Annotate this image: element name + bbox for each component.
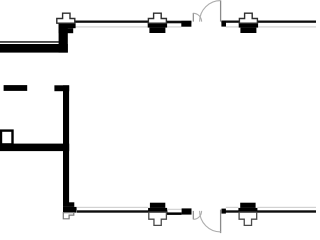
wall: left vertical wall (63, 85, 69, 202)
column U-top-middle: white castellated cap (148, 13, 166, 23)
wire: bottom wall faint inner line (77, 207, 316, 208)
column U-top-middle: black base (148, 23, 167, 28)
door D2 bottom: large leaf (220, 210, 222, 234)
wall: top-left thin inner line (0, 41, 59, 43)
wire: bottom wall dark line segments (77, 210, 316, 212)
column U-top-right: black base (239, 23, 258, 28)
column U-bottom-middle: black base (150, 203, 165, 208)
door D1 top: small leaf (192, 13, 194, 22)
column U-bottom-right: white castellated cap (239, 212, 257, 225)
door D2 bottom: small swing arc (193, 211, 201, 219)
window: left small square window (1, 131, 13, 145)
wire: bottom window band between column and stub (167, 209, 182, 210)
column U-bottom-right: black base (240, 203, 255, 208)
door D2 bottom: large swing arc (200, 211, 221, 232)
wall: left middle short bar (4, 85, 28, 91)
door D1 top: large leaf (220, 0, 222, 21)
wall: top-left vertical wall (59, 23, 68, 53)
wire: top wall dark line segments (75, 21, 316, 24)
wire: top wall faint inner line (75, 26, 316, 27)
column cap: top-left corner white castellated cap (57, 13, 75, 23)
wall: bottom-left corner blob (63, 202, 74, 207)
column U-top-right: white castellated cap (239, 13, 257, 23)
wall: top door left stub (181, 21, 191, 27)
door D2 bottom: small leaf (192, 211, 194, 220)
door D1 top: large swing arc (200, 1, 221, 22)
column U-bottom-middle: white castellated cap (149, 212, 167, 225)
wall: left L-wall horizontal stub (54, 85, 69, 91)
column base: top-left corner black steps (59, 23, 76, 28)
wall: left lower horizontal thick wall (0, 144, 69, 152)
column cap: bottom-left corner white castellation (63, 213, 74, 219)
door D1 top: small swing arc (193, 13, 201, 21)
wall: top-left horizontal thick wall (0, 44, 68, 53)
wall: bottom door right cap (222, 209, 226, 214)
wall: top door right cap (221, 21, 226, 27)
wall: bottom door left stub (182, 208, 192, 214)
